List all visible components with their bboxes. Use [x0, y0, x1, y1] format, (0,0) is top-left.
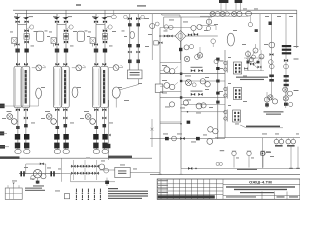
rail footer 1: [158, 173, 161, 175]
rung y104.3: [181, 103, 225, 105]
dark y97: [216, 92, 219, 104]
instr circles y104: [169, 100, 206, 108]
instr circles y27: [191, 24, 202, 35]
vent label: [237, 152, 271, 170]
title doc number: [249, 179, 272, 184]
title names dark row: [158, 195, 215, 198]
notes text: [108, 188, 148, 199]
adsorber train 1 (vessels A1): [7, 10, 34, 154]
rung y97.5: [160, 97, 225, 99]
small box left rail: [154, 41, 163, 45]
pump N1: [31, 170, 46, 180]
title description: [226, 186, 295, 193]
lower oval E3: [36, 88, 42, 98]
top middle circles: [184, 55, 199, 62]
dark seg y122: [187, 121, 191, 124]
valves y138: [165, 136, 213, 144]
receiver outlet: [130, 171, 160, 173]
manifold bracket 2: [224, 87, 228, 99]
diamond mixer: [175, 31, 186, 42]
legend square: [64, 194, 69, 199]
air line label right: [108, 156, 132, 159]
level instrument train2: [72, 65, 86, 71]
title bottom cells: [223, 192, 300, 200]
rail footer 2: [179, 168, 182, 174]
stub left b: [0, 98, 39, 108]
manifold instr: [99, 164, 109, 173]
mark below diamond: [179, 48, 182, 51]
instr circle left rail: [150, 14, 160, 60]
svg-text:ОЖШ-4.ТМ: ОЖШ-4.ТМ: [249, 179, 272, 184]
pump suction line: [19, 173, 60, 175]
drop from bottom line: [261, 138, 270, 169]
manifold row 1: [71, 165, 100, 168]
dark y75: [216, 58, 219, 83]
drum stem L: [129, 14, 131, 70]
rung y35 left: [159, 35, 175, 37]
circle y61: [214, 59, 224, 63]
apparatus sketch: [5, 183, 22, 200]
tall oval right: [227, 33, 234, 46]
nitrogen unit cluster: [264, 92, 292, 108]
feed step line: [162, 14, 180, 17]
circle pair y83 r: [200, 79, 210, 87]
bottom line y137.6: [215, 137, 300, 139]
pump unit 2: [286, 138, 296, 147]
rung y138.5: [150, 138, 225, 140]
circles y47: [184, 44, 194, 50]
rung y91.5: [160, 91, 181, 93]
circle right mid: [211, 39, 216, 47]
right col A symbols: [268, 42, 278, 104]
rung y62.5: [160, 62, 181, 64]
title line under number: [223, 183, 300, 185]
cluster y130: [208, 127, 218, 134]
rail x218: [217, 60, 219, 139]
pump outlet right: [55, 173, 70, 175]
manifold bracket 3: [224, 110, 228, 122]
manifold bracket 1: [224, 61, 228, 73]
right cluster web diagonals: [246, 51, 262, 69]
lower oval E5: [112, 87, 120, 98]
rung y73.7: [160, 73, 225, 75]
second header seg: [200, 16, 248, 30]
box top line: [164, 16, 212, 18]
frame line above title: [150, 173, 300, 175]
lower tie line: [62, 158, 116, 182]
air line: [0, 157, 152, 159]
relief circle y83: [186, 80, 197, 87]
small circle below: [206, 25, 210, 31]
manifold box 1: [233, 62, 241, 74]
instr circle y22: [206, 17, 211, 25]
circle pair above diamond: [160, 25, 191, 30]
header label VU: [76, 4, 81, 6]
vent stems: [232, 151, 265, 168]
valves y94: [191, 91, 203, 96]
branch oval x114: [111, 10, 116, 19]
stub left d: [0, 145, 9, 149]
right verticals: [260, 14, 286, 100]
adsorber train 2 (vessels A2): [46, 10, 73, 154]
junction squares: [180, 73, 182, 99]
right col B flange stack: [282, 45, 293, 96]
discharge flange: [50, 171, 54, 176]
rung y36 right: [186, 35, 218, 37]
rung y122: [160, 121, 181, 123]
pump drain: [33, 178, 44, 187]
nitrogen caption: [264, 111, 284, 114]
upper vessel E1: [37, 31, 44, 41]
title block outline: [157, 179, 300, 199]
drum stem marks: [128, 44, 140, 63]
receiver drain: [105, 178, 109, 186]
micro labels: [2, 9, 299, 192]
below xrow marks: [248, 16, 258, 32]
valves y70: [191, 67, 203, 72]
right cluster caption: [236, 77, 268, 80]
bypass valve: [40, 163, 44, 166]
drum inlet valves: [124, 15, 145, 26]
dark mark y23: [269, 22, 273, 26]
diamond drop: [180, 41, 182, 60]
rail x160: [159, 28, 161, 175]
title small cells text: [158, 180, 168, 193]
xcircle row marks: [211, 12, 236, 15]
receiver feed: [99, 169, 114, 171]
rung y112: [181, 111, 225, 113]
instr pair y70: [160, 67, 178, 74]
rail x181: [180, 17, 182, 168]
hx fitting top 1: [219, 0, 228, 11]
instr pair y85: [160, 82, 178, 89]
air line bracket: [151, 119, 153, 147]
legend ticks: [76, 189, 101, 200]
stub left c: [0, 131, 7, 135]
drum stem R: [137, 14, 139, 70]
circle y55: [197, 47, 202, 58]
pump downcomers: [289, 147, 300, 169]
air line label left: [0, 156, 20, 159]
xcircle row: [210, 11, 252, 16]
circle y106: [196, 103, 202, 109]
manifold stems: [73, 160, 96, 180]
receiver R1: [115, 167, 130, 177]
drum B1: [127, 70, 142, 79]
level instrument train3: [109, 65, 123, 71]
vent header: [181, 150, 300, 170]
box on rail y88: [155, 84, 163, 92]
upper vessel E2: [77, 31, 84, 41]
nitrogen label line: [240, 125, 283, 128]
manifold row 2: [71, 172, 100, 175]
drain line train3: [107, 100, 111, 160]
right edge specks: [294, 46, 299, 91]
rung y81: [181, 80, 225, 82]
lower oval E4: [72, 87, 78, 97]
hx fitting top 2: [235, 0, 243, 11]
header right edge drop: [296, 10, 298, 48]
header label 2: [137, 5, 146, 6]
drum outlet: [116, 79, 138, 108]
title grid: [157, 179, 223, 199]
rail x225: [224, 50, 226, 138]
adsorber train 3 (vessels A3): [85, 10, 112, 154]
suction flange: [20, 171, 24, 176]
pump unit 1: [274, 138, 284, 147]
valves on y36: [164, 33, 198, 37]
bracket line from left: [151, 123, 182, 131]
pipe header lower: [15, 13, 297, 15]
manifold box 2: [233, 88, 241, 100]
drum inlet oval: [130, 31, 135, 38]
bypass loop: [26, 164, 46, 174]
box left line: [163, 17, 165, 28]
apparatus caption: [25, 188, 45, 191]
manifold box 3: [233, 110, 241, 122]
pipe header upper: [13, 9, 297, 11]
level instrument train1: [32, 65, 46, 71]
right cluster web: [244, 44, 264, 71]
